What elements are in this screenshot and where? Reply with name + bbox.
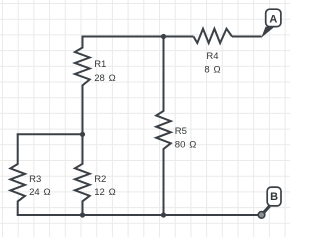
resistor R4 — [194, 29, 233, 43]
svg-text:24 Ω: 24 Ω — [29, 187, 51, 198]
R3 label — [29, 174, 51, 198]
resistor R1 — [75, 37, 90, 135]
resistor R2 — [75, 134, 90, 215]
wire left loop horizontal — [17, 133, 83, 135]
svg-text:R3: R3 — [29, 174, 41, 185]
R1 label — [94, 59, 116, 84]
wire bottom horizontal — [17, 214, 259, 216]
svg-text:12 Ω: 12 Ω — [94, 187, 116, 198]
svg-text:R4: R4 — [206, 51, 218, 62]
wire top horizontal left segment — [82, 36, 194, 38]
junction node bottom R5 — [161, 212, 166, 217]
R5 label — [175, 126, 197, 150]
resistor R5 — [156, 37, 171, 216]
node dot B — [258, 212, 265, 219]
R4 label — [204, 51, 220, 75]
junction node left loop (R1/R2) — [80, 132, 85, 137]
svg-text:A: A — [269, 13, 277, 25]
svg-text:R5: R5 — [175, 126, 187, 137]
wire top horizontal right segment — [232, 36, 262, 38]
svg-text:R2: R2 — [94, 174, 106, 185]
svg-text:80 Ω: 80 Ω — [175, 139, 197, 150]
terminal flag A — [261, 9, 281, 38]
R2 label — [94, 174, 116, 198]
resistor R3 — [10, 134, 25, 215]
junction node top (R5/R4) — [161, 34, 166, 39]
svg-text:28 Ω: 28 Ω — [94, 73, 116, 84]
junction node bottom R2 — [80, 212, 85, 217]
terminal flag B — [258, 187, 281, 218]
svg-text:R1: R1 — [94, 59, 106, 70]
svg-text:B: B — [270, 191, 278, 203]
